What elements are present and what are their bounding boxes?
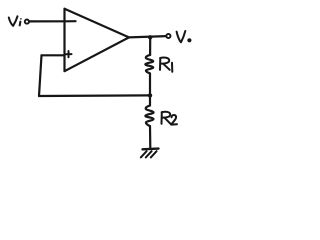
wire: feedback to non-inverting input	[42, 54, 65, 56]
node: feedback junction	[148, 93, 152, 97]
wire: feedback vertical segment	[39, 55, 42, 96]
wire: R2 bottom to ground	[149, 126, 152, 148]
input terminal (Vi)	[25, 20, 29, 24]
wire: R1 bottom to feedback node	[149, 74, 151, 96]
output terminal (Vo)	[166, 34, 170, 38]
wire: output node to R1 top	[149, 37, 151, 55]
wire: op-amp output to Vo terminal	[129, 36, 166, 37]
node: output junction	[148, 35, 152, 39]
resistor R1	[145, 55, 153, 74]
label R1	[160, 58, 172, 72]
resistor R2	[145, 105, 153, 126]
wire: feedback bottom horizontal segment	[39, 94, 150, 97]
op-amp U1	[65, 9, 130, 71]
op-amp plus sign	[66, 51, 72, 57]
label R2	[162, 112, 178, 125]
wire: feedback node to R2 top	[149, 95, 151, 105]
label Vo	[177, 31, 192, 42]
op-amp minus sign	[66, 20, 76, 22]
label Vi	[9, 16, 22, 26]
wire: Vi terminal to inverting input	[30, 20, 65, 22]
ground	[141, 149, 159, 158]
